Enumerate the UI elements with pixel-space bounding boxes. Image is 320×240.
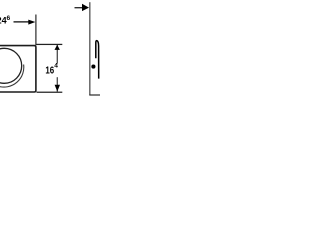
wire extension line side view front face: [89, 2, 90, 95]
wire dimension line 24.6: [14, 21, 30, 22]
svg-text:4: 4: [54, 63, 58, 70]
wire dimension line depth (top right): [75, 7, 83, 8]
plate front view outline: [0, 46, 36, 92]
arrowhead up (16.4): [55, 45, 60, 50]
svg-text:6: 6: [7, 15, 11, 22]
wire extension tick top (16.4): [37, 44, 63, 45]
arrowhead right (depth): [82, 4, 89, 11]
side view button dot: [91, 65, 95, 69]
wire extension line right edge of plate (upper thin part): [35, 15, 36, 46]
arrowhead down (16.4): [55, 85, 60, 92]
wire dimension line 16.4 vertical: [57, 45, 58, 64]
arrowhead right (24.6): [28, 20, 35, 25]
button circle front view: [0, 48, 22, 83]
button rim arc (bottom-right shadow): [0, 65, 24, 88]
wire extension tick bottom (16.4): [37, 92, 63, 93]
side view bottom edge: [89, 94, 100, 95]
side view profile curve: [96, 41, 99, 79]
svg-text:16: 16: [45, 66, 54, 77]
